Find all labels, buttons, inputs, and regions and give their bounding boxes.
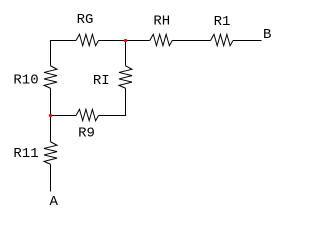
svg-text:R11: R11 <box>13 146 38 162</box>
resistor R10 <box>44 66 57 89</box>
svg-text:RH: RH <box>153 14 170 30</box>
wire left vertical top <box>50 40 52 66</box>
resistor R11 <box>44 142 57 165</box>
wire RI top to node <box>125 40 127 66</box>
wire RH to R1 <box>172 40 210 42</box>
svg-text:R10: R10 <box>13 73 38 89</box>
wire R11 to A <box>50 164 52 191</box>
resistor RI <box>119 66 132 89</box>
svg-text:R9: R9 <box>78 126 95 142</box>
resistor RH <box>150 34 173 45</box>
resistor RG <box>76 34 99 45</box>
wire R9 row left <box>51 115 77 117</box>
junction node dot top <box>124 39 127 42</box>
wire node to RH <box>126 40 150 42</box>
wire R9 to corner <box>99 115 126 117</box>
wire top-left horizontal <box>51 40 77 42</box>
wire RG to node <box>99 40 126 42</box>
svg-text:A: A <box>50 194 59 210</box>
wire R10 to R11 <box>50 88 52 142</box>
svg-text:RI: RI <box>93 73 110 89</box>
svg-text:RG: RG <box>77 12 94 28</box>
svg-text:R1: R1 <box>214 14 231 30</box>
wire corner up to RI <box>125 88 127 116</box>
svg-text:B: B <box>263 27 271 43</box>
junction node dot left <box>49 114 52 117</box>
wire R1 to B <box>233 40 262 42</box>
resistor R1 <box>211 34 234 45</box>
resistor R9 <box>76 109 99 120</box>
